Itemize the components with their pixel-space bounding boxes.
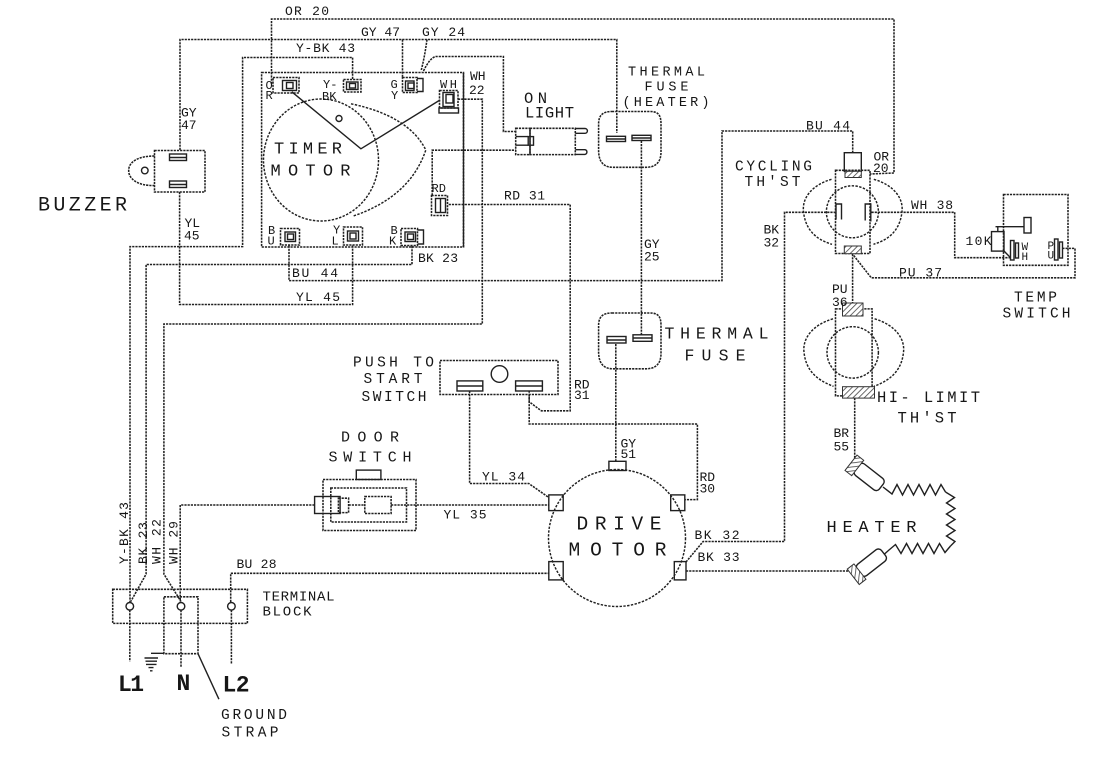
svg-text:WH: WH [440,78,457,92]
svg-text:SWITCH: SWITCH [329,450,412,467]
svg-text:TEMP: TEMP [1014,291,1057,307]
svg-text:SWITCH: SWITCH [362,390,427,406]
svg-text:BU 44: BU 44 [806,119,850,134]
svg-text:BU 44: BU 44 [292,266,338,281]
svg-text:30: 30 [700,482,716,497]
svg-text:BK: BK [322,90,337,104]
svg-text:THERMAL: THERMAL [665,325,769,344]
svg-text:WH 29: WH 29 [167,521,182,564]
svg-text:HI- LIMIT: HI- LIMIT [877,389,980,407]
svg-text:36: 36 [832,295,848,310]
svg-text:YL 34: YL 34 [482,470,525,485]
svg-text:51: 51 [621,447,637,462]
svg-text:PUSH TO: PUSH TO [353,356,434,372]
svg-text:RD: RD [432,182,446,196]
svg-text:WH 38: WH 38 [911,198,953,213]
svg-text:STRAP: STRAP [222,726,279,742]
svg-text:BLOCK: BLOCK [263,605,313,621]
svg-text:Y-BK 43: Y-BK 43 [296,41,355,56]
svg-text:U: U [1048,251,1055,263]
svg-text:K: K [389,235,397,249]
svg-text:WH 22: WH 22 [150,519,165,564]
svg-text:GY 47: GY 47 [361,25,400,40]
svg-text:THERMAL: THERMAL [628,66,705,81]
svg-text:BK 32: BK 32 [695,528,740,543]
svg-text:MOTOR: MOTOR [271,163,351,182]
svg-text:R: R [266,89,273,103]
svg-text:DOOR: DOOR [341,430,399,447]
svg-text:BK 23: BK 23 [418,251,458,266]
svg-text:GROUND: GROUND [221,708,287,724]
svg-text:H: H [1022,252,1029,264]
svg-text:RD 31: RD 31 [504,189,545,204]
svg-text:TH'ST: TH'ST [745,175,801,191]
svg-text:HEATER: HEATER [827,519,917,538]
svg-text:GY 24: GY 24 [422,25,465,40]
svg-text:BK 33: BK 33 [698,550,740,565]
svg-text:LIGHT: LIGHT [525,105,574,123]
svg-text:FUSE: FUSE [645,81,689,96]
svg-text:BUZZER: BUZZER [38,195,127,218]
svg-text:22: 22 [469,83,485,98]
svg-text:25: 25 [644,250,660,265]
svg-text:U: U [268,235,275,249]
svg-text:TERMINAL: TERMINAL [263,590,335,606]
svg-text:TIMER: TIMER [274,141,342,160]
svg-text:CYCLING: CYCLING [735,160,812,176]
svg-text:Y: Y [391,89,398,103]
svg-text:PU 37: PU 37 [899,266,942,281]
svg-text:N: N [177,671,191,697]
svg-text:YL 35: YL 35 [444,508,487,523]
svg-text:BU 28: BU 28 [237,557,277,572]
svg-text:47: 47 [181,118,197,133]
svg-text:SWITCH: SWITCH [1003,307,1071,323]
svg-text:YL 45: YL 45 [296,290,340,305]
svg-text:TH'ST: TH'ST [898,410,957,428]
svg-text:L: L [332,235,339,249]
svg-text:55: 55 [834,440,850,455]
svg-text:20: 20 [873,161,889,176]
svg-text:WH: WH [470,69,486,84]
svg-text:FUSE: FUSE [685,347,746,366]
svg-text:10K: 10K [966,234,992,249]
svg-text:45: 45 [184,229,200,244]
svg-text:32: 32 [764,236,780,251]
svg-text:OR 20: OR 20 [285,4,329,19]
svg-text:DRIVE: DRIVE [577,514,662,536]
svg-text:L1: L1 [118,672,144,698]
svg-text:MOTOR: MOTOR [569,540,667,562]
svg-text:(HEATER): (HEATER) [623,96,710,111]
svg-text:31: 31 [574,388,590,403]
svg-text:Y-BK 43: Y-BK 43 [117,502,132,564]
svg-text:L2: L2 [223,673,250,699]
svg-text:START: START [364,372,423,388]
